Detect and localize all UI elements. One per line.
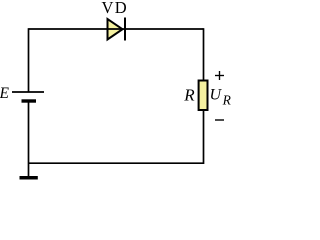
wire bottom [29,162,204,164]
diode VD [108,18,126,41]
svg-text:VD: VD [102,0,127,17]
ground [20,176,38,180]
label + [215,71,224,80]
svg-text:E: E [0,85,10,102]
label minus [215,119,224,121]
wire left lower [28,101,30,178]
wire right lower [203,110,205,164]
svg-text:R: R [183,86,195,105]
wire right upper [203,28,205,81]
wire left upper [28,28,30,91]
wire top [29,28,204,30]
svg-text:UR: UR [210,87,232,108]
battery E [12,92,44,101]
resistor R [199,81,208,111]
